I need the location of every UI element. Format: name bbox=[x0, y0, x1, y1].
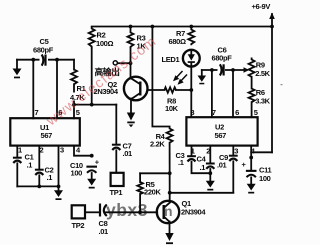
wire R9 to R6 bbox=[251, 77, 253, 89]
wire rail down to R4 corner bbox=[152, 27, 169, 127]
node pin6 top bbox=[231, 68, 235, 72]
wire R3 to collector node bbox=[130, 48, 132, 79]
arrow into R9 bbox=[244, 67, 250, 72]
svg-text:3.3K: 3.3K bbox=[255, 97, 270, 106]
svg-text:8: 8 bbox=[190, 108, 194, 117]
svg-text:LED1: LED1 bbox=[162, 55, 180, 64]
svg-text:ybx8: ybx8 bbox=[106, 200, 148, 220]
wire Q1 collector to U2 pin3 bbox=[170, 192, 234, 194]
svg-text:567: 567 bbox=[41, 131, 53, 140]
ground Q1 emitter bbox=[166, 242, 173, 244]
wire C6 ground rail bbox=[202, 69, 246, 71]
wire C9 to Q1 collector rail bbox=[232, 161, 234, 192]
wire C7 column bbox=[115, 105, 117, 144]
svg-text:.1: .1 bbox=[200, 163, 206, 172]
svg-text:4: 4 bbox=[76, 146, 81, 155]
ground C5 left bbox=[13, 60, 22, 79]
wire top supply rail bbox=[92, 26, 272, 28]
test point TP1 bbox=[110, 173, 124, 197]
resistor R4 bbox=[150, 127, 173, 149]
node collector junction bbox=[129, 61, 133, 65]
svg-text:6: 6 bbox=[235, 108, 239, 117]
wire C4 to ground bbox=[209, 169, 211, 181]
IC U1 567 bbox=[10, 108, 81, 155]
svg-text:.01: .01 bbox=[217, 161, 227, 170]
resistor R1 bbox=[70, 60, 91, 105]
wire Q2 emitter bbox=[130, 99, 132, 114]
wire U1 pin6 column bbox=[56, 60, 58, 119]
transistor Q1 bbox=[157, 199, 207, 223]
wire C2 to bottom rail bbox=[38, 175, 40, 186]
svg-text:7: 7 bbox=[35, 108, 39, 117]
wire R4 to Q1 collector bbox=[169, 143, 171, 202]
svg-text:100: 100 bbox=[71, 169, 83, 178]
resistor R3 bbox=[128, 25, 147, 51]
wire R2 bottom column bbox=[91, 49, 93, 105]
svg-text:2N3904: 2N3904 bbox=[181, 208, 206, 217]
wire output to collector node bbox=[118, 62, 131, 64]
node U1 pin6 top bbox=[55, 58, 59, 62]
ground U1 pin3 bbox=[54, 190, 63, 200]
resistor R8 bbox=[147, 87, 191, 113]
wire U2 pin6 column bbox=[232, 70, 234, 117]
wire supply to U2 pin4 bbox=[251, 151, 272, 153]
wire U2 pin4 column bbox=[250, 146, 252, 170]
node pin2 col bbox=[208, 171, 212, 175]
node R1 bottom bbox=[72, 103, 76, 107]
resistor R7 bbox=[169, 25, 195, 46]
wire C3 to pin2 column bbox=[192, 162, 211, 173]
svg-text:567: 567 bbox=[215, 131, 227, 140]
wire U1 pin5 stub bbox=[73, 105, 75, 119]
capacitor C9 bbox=[217, 153, 238, 170]
ground C11 bbox=[247, 184, 256, 194]
capacitor C5 bbox=[17, 37, 74, 66]
node supply-rail right corner bbox=[270, 25, 274, 29]
resistor R5 bbox=[137, 173, 161, 212]
capacitor C8 bbox=[99, 204, 109, 237]
wire U2 pin7 column bbox=[211, 70, 213, 117]
svg-text:680pF: 680pF bbox=[33, 46, 54, 55]
LED emission arrows bbox=[173, 72, 187, 85]
wire U2 pin3 column bbox=[232, 146, 234, 155]
wire LED cathode to U2 pin8 bbox=[190, 67, 192, 118]
svg-text:220K: 220K bbox=[144, 188, 161, 197]
capacitor C11 bbox=[242, 160, 272, 183]
svg-text:10K: 10K bbox=[165, 104, 179, 113]
terminal output circle bbox=[95, 61, 121, 77]
wire R1 to C7 column bbox=[74, 104, 116, 106]
node pin4 supply bbox=[249, 156, 253, 160]
svg-text:TP2: TP2 bbox=[72, 221, 85, 230]
svg-text:.01: .01 bbox=[123, 149, 133, 158]
svg-text:2.2K: 2.2K bbox=[150, 140, 165, 149]
wire U1 pin4 to C10 bbox=[74, 146, 92, 156]
svg-text:100Ω: 100Ω bbox=[96, 39, 113, 48]
LED LED1 bbox=[162, 50, 200, 67]
wire C8 to Q1 base bbox=[106, 211, 157, 213]
wire C7 to TP1 bbox=[115, 150, 117, 173]
transistor Q2 bbox=[94, 77, 148, 101]
watermark gray gbx8 bbox=[106, 200, 173, 220]
node Q1 collector bbox=[168, 191, 172, 195]
capacitor C7 bbox=[112, 142, 132, 159]
resistor R9 trimmer bbox=[249, 58, 271, 79]
svg-text:.1: .1 bbox=[47, 173, 53, 182]
node LED/R8 junction bbox=[189, 88, 193, 92]
wire Q1 emitter bbox=[169, 222, 171, 235]
wire TP2 to C8 bbox=[85, 211, 99, 213]
ground Q2 emitter bbox=[127, 122, 134, 128]
IC U2 567 bbox=[186, 108, 257, 156]
power +6-9V terminal bbox=[252, 2, 275, 152]
resistor R6 bbox=[249, 88, 271, 106]
resistor R2 bbox=[89, 27, 114, 49]
capacitor C1 bbox=[13, 153, 34, 170]
svg-text:7: 7 bbox=[212, 108, 216, 117]
node R2/C10 junction bbox=[90, 103, 94, 107]
svg-text:3: 3 bbox=[60, 146, 64, 155]
svg-text:+: + bbox=[242, 160, 247, 169]
capacitor C4 bbox=[197, 155, 215, 173]
node R5 base junction bbox=[138, 210, 142, 214]
capacitor C6 bbox=[212, 46, 233, 77]
wire U1 pin2 column bbox=[38, 146, 40, 169]
node pin7 top bbox=[210, 68, 214, 72]
svg-text:+: + bbox=[95, 158, 100, 167]
svg-text:680pF: 680pF bbox=[212, 54, 233, 63]
svg-text:.1: .1 bbox=[178, 158, 184, 167]
capacitor C2 bbox=[35, 166, 54, 183]
svg-text:TP1: TP1 bbox=[110, 188, 123, 197]
svg-text:.01: .01 bbox=[99, 227, 109, 236]
svg-text:3: 3 bbox=[234, 147, 238, 156]
test point TP2 bbox=[72, 205, 86, 230]
wire C10 to ground bbox=[91, 173, 93, 179]
svg-text:.1: .1 bbox=[27, 161, 33, 170]
ground near LED bbox=[198, 70, 207, 84]
capacitor C10 bbox=[70, 158, 100, 178]
svg-text:5: 5 bbox=[254, 108, 258, 117]
ground C10 bbox=[87, 179, 96, 189]
wire U1 pin7 column bbox=[32, 60, 34, 119]
wire R5 top to collector column bbox=[140, 172, 170, 174]
node R4 column on rail bbox=[151, 25, 155, 29]
wire U2 pin2 column bbox=[209, 146, 211, 163]
node U1 pin7 top bbox=[31, 58, 35, 62]
svg-text:100: 100 bbox=[259, 174, 271, 183]
svg-text:680Ω: 680Ω bbox=[169, 37, 186, 46]
svg-text:2.5K: 2.5K bbox=[255, 69, 270, 78]
wire U2 pin1 column bbox=[191, 146, 193, 155]
wire C11 to ground bbox=[250, 177, 252, 184]
svg-text:1: 1 bbox=[18, 146, 22, 155]
capacitor C3 bbox=[176, 151, 196, 167]
wire U1 pin3 column bbox=[58, 146, 60, 191]
wire R6 to U2 pin5 bbox=[251, 102, 253, 117]
wire U1 bottom rail bbox=[17, 185, 58, 187]
wire C1 to bottom rail bbox=[16, 163, 18, 186]
wire U1 pin1 column bbox=[16, 146, 18, 157]
ground C4 bbox=[206, 181, 215, 191]
svg-text:+6-9V: +6-9V bbox=[252, 2, 271, 11]
